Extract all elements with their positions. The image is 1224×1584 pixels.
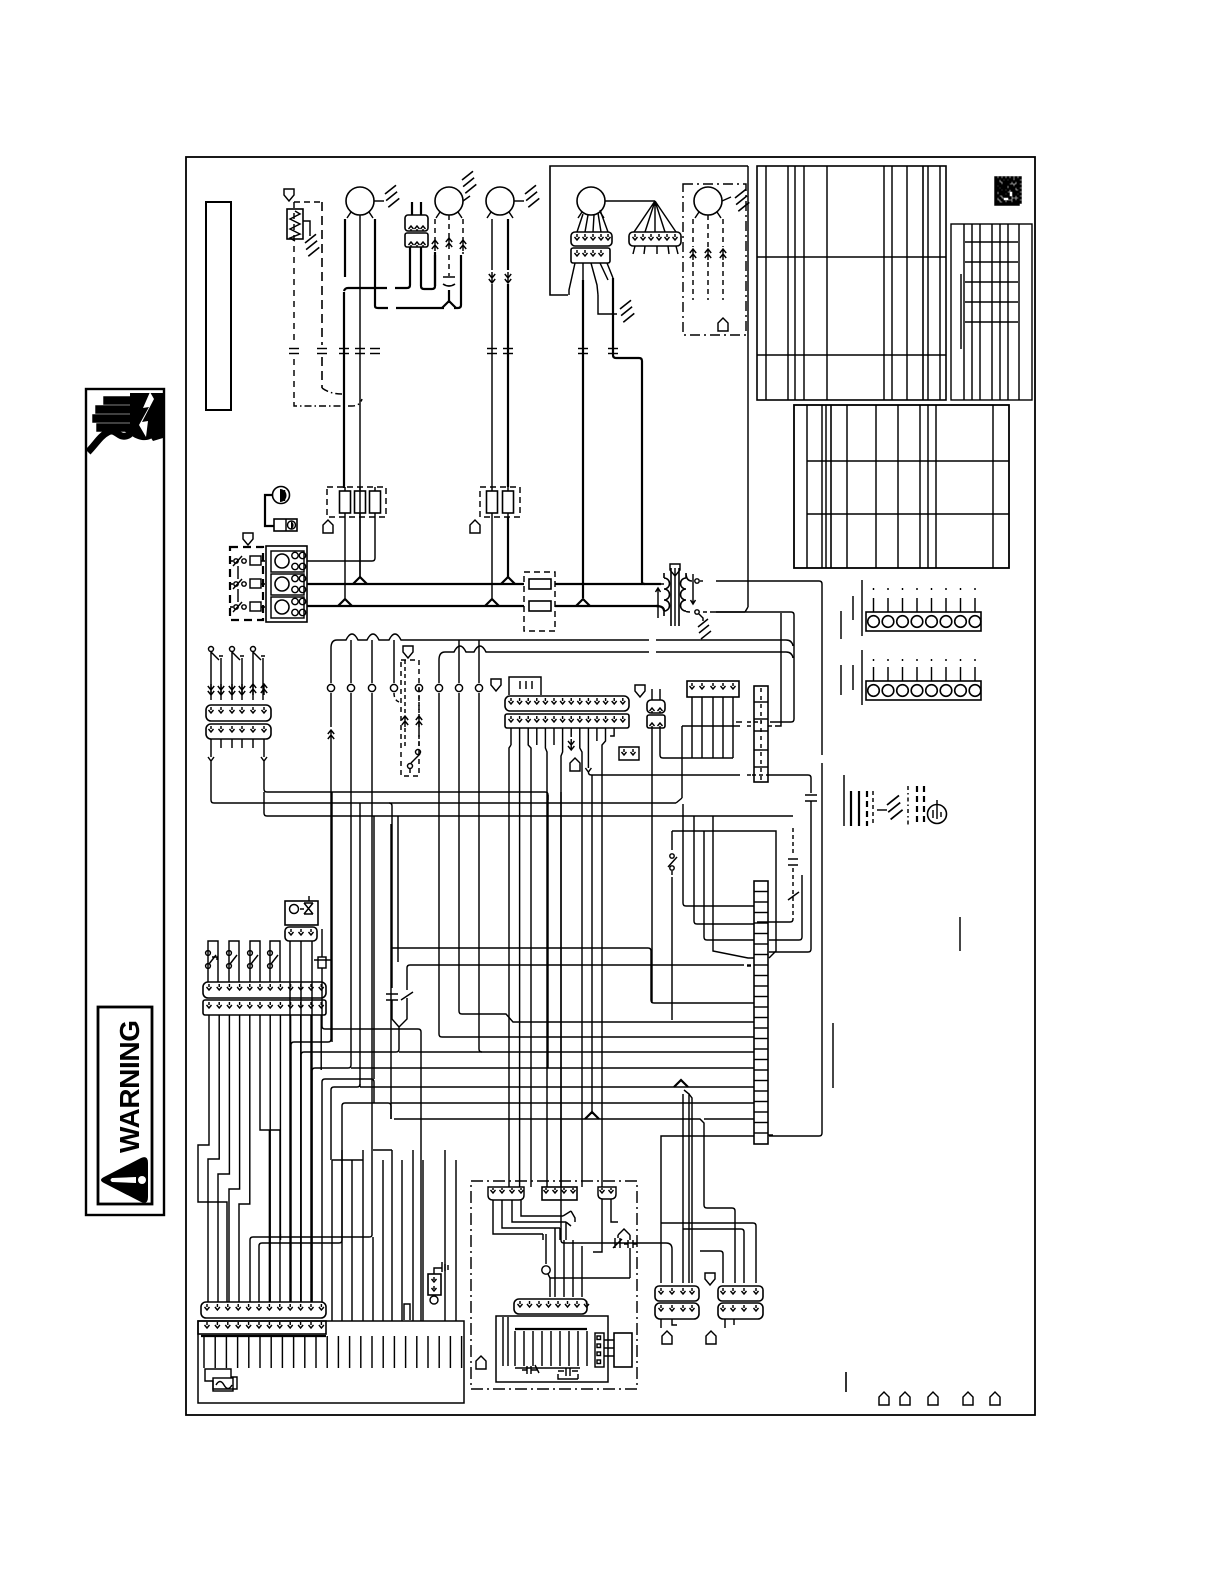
ground at M5: [735, 189, 749, 211]
comb feed wires: [331, 1160, 333, 1321]
inline connector wires up: [651, 689, 653, 700]
staircase rail y1042: [291, 1039, 331, 1302]
rail y1223 to E: [661, 1223, 756, 1283]
ground at M3: [525, 185, 539, 207]
M3 wires to buses: [491, 517, 493, 598]
wire x398 drop from rail y816: [397, 816, 399, 962]
flag above pressure switch: [403, 646, 413, 658]
M3 right leg: [507, 219, 509, 270]
D stubs: [661, 1319, 677, 1328]
staircase rail y1068 long: [312, 1050, 351, 1302]
legend tall rectangle: [206, 202, 231, 410]
wire M1 left leg: [344, 219, 346, 277]
pressure switch dashed box: [401, 660, 419, 776]
ground at M1: [385, 185, 399, 207]
wire x819: [819, 581, 822, 592]
staircase rail y1052 long: [301, 1029, 399, 1302]
ignition transformer core: [496, 1316, 608, 1382]
ground bar cluster B: [907, 786, 909, 826]
connector strip CS3 row1: [203, 982, 326, 998]
rail y965: [407, 965, 744, 968]
wire x592 long: [591, 775, 593, 1114]
E stubs: [725, 1319, 734, 1328]
plug P1: [405, 215, 428, 231]
wire M1 mid leg: [359, 215, 361, 577]
wires feeding ladder rails: [683, 804, 754, 906]
connector strip CS2 row2: [505, 714, 629, 728]
flag above heater enclosure: [284, 189, 294, 201]
wire L1 drop: [343, 292, 345, 488]
lower ladder connector LL: [754, 881, 768, 1144]
connector strip CS1 row1: [206, 705, 271, 721]
switch bank arrows: [208, 684, 214, 695]
board outline: [198, 1321, 464, 1403]
spark gap caps: [613, 1238, 622, 1248]
flag above inline connector: [635, 685, 645, 697]
rail y1029: [322, 1026, 421, 1321]
inline fuse F2: [529, 601, 551, 611]
bus row2 thick: [307, 583, 524, 585]
collector rail y1255: [259, 1240, 342, 1302]
connector strip CS1 row2: [206, 724, 271, 739]
M3 left leg: [491, 219, 493, 270]
ignition connector A: [488, 1187, 524, 1200]
door switch DS: [273, 487, 290, 504]
flag above E: [705, 1273, 715, 1285]
connector strip CS3 row2: [203, 1000, 326, 1015]
wire M1 to ground: [374, 200, 384, 202]
motor M2: [435, 187, 463, 215]
inline connector wires down: [651, 728, 653, 1003]
ignition connector C: [598, 1187, 616, 1199]
rail y1278: [550, 1262, 630, 1278]
connector strip CS2 row1: [505, 696, 629, 711]
connector D row2: [655, 1303, 699, 1319]
TS1 feed wires: [861, 580, 863, 636]
blower enclosure: [550, 166, 748, 295]
rail y922 from dashed drop: [757, 921, 790, 923]
capacitor C1: [443, 277, 455, 286]
legend mark short line 2: [832, 1023, 834, 1088]
ground at heater: [305, 234, 319, 256]
CS2 jog wire: [610, 728, 614, 736]
inline fuse dashed box: [524, 572, 555, 631]
wire 394 lower dashed link: [394, 693, 401, 703]
ground at transformer: [698, 619, 711, 639]
wire CS1 left with fork: [208, 739, 214, 803]
wire fuse to relay row1: [344, 517, 346, 598]
wire blower right: [613, 278, 642, 582]
condenser dash-dot enclosure: [683, 184, 746, 335]
bus L1 y290: [344, 247, 410, 291]
wire x802 into ladder right: [769, 875, 802, 940]
pressure switch on x672: [671, 846, 673, 852]
rail y1254 to E: [700, 1251, 723, 1283]
ignition connector B: [542, 1187, 577, 1200]
ignition harness A bends: [493, 1200, 566, 1234]
wire drops with connector circles: [330, 648, 332, 683]
ignition harness fork: [563, 1211, 575, 1226]
gas valve wires: [289, 941, 291, 1302]
wires P1 up: [411, 202, 413, 215]
wire x682 drop: [681, 730, 683, 798]
SP6 wires down: [691, 697, 693, 758]
rail R652 with bumps: [439, 646, 793, 660]
wire x692 into D: [689, 1094, 692, 1283]
enclosure bottom dash-dot: [294, 399, 362, 406]
flag below D: [662, 1331, 672, 1344]
ground bar cluster A: [843, 775, 845, 826]
wire 394 upper dashed: [393, 640, 395, 683]
ignition transformer connector: [514, 1299, 587, 1314]
wire M1 right leg: [374, 219, 376, 306]
wire x561 long: [560, 792, 562, 1240]
loop box upper: [672, 831, 776, 958]
ladder right stub: [768, 1134, 775, 1136]
spark gap chevron: [618, 1229, 630, 1235]
motor M3: [486, 187, 514, 215]
transformer primary leads: [656, 584, 664, 611]
CS3 right wires into rails: [290, 1015, 292, 1302]
CS3 lower staircase harness: [198, 1015, 227, 1302]
wire plug right leg U: [421, 247, 435, 289]
pressure switch dashed wires: [404, 660, 406, 714]
dashed drop x793 switch: [788, 892, 799, 900]
wire blower gnd stub: [598, 295, 617, 314]
diagram frame: [186, 157, 1035, 1415]
fuse holder circle: [430, 1296, 438, 1304]
rail y726: [682, 725, 740, 727]
terminal strip TS1: [866, 612, 981, 631]
inline connector ICA: [647, 700, 665, 713]
CS1 stubs: [220, 739, 222, 748]
flag below M1 fuses: [323, 520, 333, 533]
fuse M1-1: [340, 491, 351, 513]
svg-text:WARNING: WARNING: [114, 1020, 145, 1153]
TS2 feed wires: [861, 650, 863, 705]
M2 dashed legs: [434, 219, 436, 240]
rail y1037: [439, 1034, 754, 1037]
ignition module dash-dot box: [471, 1181, 637, 1389]
wire x672 into D: [561, 1240, 672, 1283]
upper ladder connector UL: [754, 686, 768, 782]
flag below M3 fuses: [470, 520, 480, 533]
rail y792: [267, 791, 545, 793]
bottom flag row: [879, 1392, 889, 1405]
rail y948: [392, 948, 651, 1000]
transformer TRAN primary coil: [661, 573, 670, 616]
motor M1: [346, 187, 374, 215]
blower connector row1: [571, 232, 612, 246]
relay block RLY: [266, 546, 307, 622]
small connector below CS2: [619, 747, 639, 760]
CS2 fork wire: [585, 728, 594, 775]
shock cable wave: [88, 426, 132, 452]
fuse block M1 dashed: [327, 487, 386, 517]
wire heater to ground: [303, 221, 310, 236]
data matrix code: [995, 177, 1021, 205]
flag above interlock box: [243, 533, 253, 545]
jog mark: [404, 1304, 410, 1320]
harness fan right: [634, 201, 676, 232]
staircase rail y1079: [322, 1079, 374, 1302]
connector D row1: [655, 1286, 699, 1301]
fuse M3-2: [503, 491, 514, 513]
board terminal strip BS row2: [198, 1321, 326, 1334]
rail y803: [214, 802, 676, 804]
fuse holder FH: [428, 1274, 441, 1295]
rail y758: [660, 741, 733, 758]
ignition side pin strip: [595, 1333, 604, 1367]
flag above transformer: [670, 564, 680, 576]
ground at blower connector: [620, 300, 634, 322]
limit switch bank: [211, 652, 221, 700]
rail R640 with bumps: [331, 634, 793, 648]
rail y774: [594, 774, 740, 776]
wire nut circle: [542, 1266, 550, 1274]
legend table T1: [757, 166, 946, 400]
electric shock hand mass: [124, 393, 163, 440]
blower connector fanout: [569, 263, 613, 295]
heater resistor HTR: [287, 209, 303, 239]
motor link to harness fan: [605, 200, 655, 202]
CS2 wires down to ignition module: [509, 728, 511, 1187]
transformer secondary coil: [681, 573, 692, 612]
wire 332 lower: [330, 693, 332, 727]
terminal strip TS2: [866, 681, 981, 700]
flag below E: [706, 1331, 716, 1344]
rail y1022 with jog: [459, 1011, 754, 1022]
junction cap leg: [442, 301, 456, 308]
board terminal strip BS row1: [201, 1302, 326, 1318]
connector E row1: [718, 1286, 763, 1301]
pressure switch contacts: [416, 750, 421, 755]
flag in enclosure: [718, 318, 728, 331]
bus L2 y308: [375, 255, 461, 308]
flag in ignition box: [476, 1356, 486, 1369]
door switch block: [274, 519, 297, 531]
ignition caps: [522, 1365, 539, 1374]
flag left of CS2: [491, 679, 501, 691]
harness strip: [629, 232, 681, 246]
interlock dashed box: [230, 547, 263, 620]
fuse block M3 dashed: [480, 487, 520, 517]
ladder bottom rail y1136: [661, 1136, 754, 1283]
interlock switches: [230, 560, 233, 562]
inline fuse F1: [529, 579, 551, 589]
legend mark short line: [959, 917, 961, 951]
rail y726 right: [775, 613, 781, 726]
transformer loop wire: [712, 602, 748, 612]
staircase rail y1103: [342, 1103, 391, 1240]
secondary top lead: [695, 579, 699, 583]
wire 439 459 479 lower: [438, 693, 440, 1034]
fuse M1-3: [370, 491, 381, 513]
registration mark: [845, 1372, 847, 1392]
interlock mechanical link: [237, 566, 239, 579]
ground at M2: [462, 171, 476, 193]
switch bank SB2: [208, 941, 218, 982]
M5 dashed legs: [692, 219, 694, 247]
legend table T3: [794, 405, 1009, 568]
rail y1003: [651, 1000, 754, 1003]
warning sidebar box: [86, 389, 164, 1215]
secondary bottom rail: [703, 611, 712, 613]
wire 351 lower: [350, 693, 352, 1050]
heater dashed enclosure: [294, 201, 322, 203]
comb feed horizontals: [332, 1159, 363, 1161]
transformer core: [670, 568, 672, 626]
earth ground circle: [928, 805, 947, 824]
wires crossing mid: [331, 792, 333, 1042]
CS3 wire jog right: [260, 1015, 280, 1302]
bus row3 thick: [307, 605, 524, 607]
wire blower left: [582, 280, 584, 598]
wire y803 to y816 link: [264, 792, 267, 816]
wire M3 to ground: [514, 200, 524, 202]
lightning bolt white: [139, 392, 154, 437]
transformer arrows: [656, 588, 661, 618]
board pin feeds: [268, 1130, 270, 1302]
sine tester: [205, 1369, 237, 1389]
blower connector row2: [571, 248, 610, 263]
ignition C wires: [593, 1199, 618, 1252]
staircase rail y1087 long: [331, 1084, 360, 1160]
warning triangle: [101, 1157, 148, 1203]
legend table T2: [951, 224, 1032, 400]
dashed drop x793 with cap: [792, 828, 794, 856]
ignition side box: [614, 1333, 632, 1367]
blower motor M4: [577, 187, 605, 215]
fuse M1-2: [355, 491, 366, 513]
motor harness to connector: [577, 210, 608, 232]
wire x392 drop from rail y803: [389, 803, 392, 958]
wire x683 into D: [682, 1094, 684, 1283]
flame igniter electrode pair: [386, 958, 398, 1013]
CS2 tab box: [509, 677, 541, 695]
rail y1232 to E: [683, 1229, 744, 1283]
strip SP6: [687, 681, 739, 697]
collector rail y1237: [250, 1234, 280, 1302]
gas valve GV: [285, 901, 318, 925]
wire CS1 right with fork: [261, 739, 267, 792]
board comb: [203, 1336, 205, 1368]
chassis ground A: [887, 795, 903, 819]
motor M5: [694, 187, 722, 215]
rail y816: [267, 815, 793, 817]
secondary bottom lead: [695, 610, 699, 614]
rail y1119: [394, 1119, 704, 1205]
WARNING label box: [98, 1007, 152, 1204]
connector E row2: [718, 1303, 763, 1319]
flag below CS2: [570, 758, 580, 771]
CS3 straight wires: [269, 1015, 271, 1302]
capacitor C3 on drop: [805, 795, 817, 801]
ignition wires to transformer: [546, 1228, 582, 1297]
wire 372 lower: [371, 693, 373, 1235]
gas valve connector: [285, 927, 317, 941]
fuse M3-1: [487, 491, 498, 513]
rail y1208 to E: [704, 1205, 735, 1283]
flame sensor FS: [314, 929, 331, 960]
board bus bar: [201, 1335, 326, 1337]
electric shock hand icon fingers: [93, 397, 148, 431]
